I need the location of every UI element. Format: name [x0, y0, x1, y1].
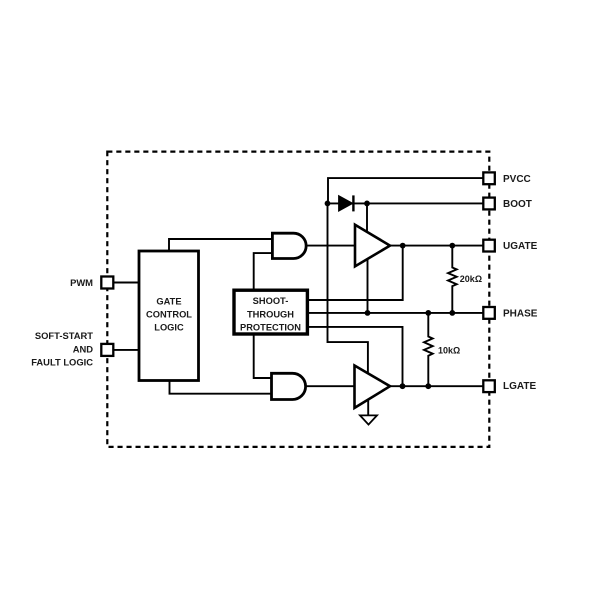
svg-text:FAULT LOGIC: FAULT LOGIC — [31, 356, 93, 367]
svg-text:SOFT-START: SOFT-START — [35, 330, 93, 341]
svg-text:10kΩ: 10kΩ — [438, 346, 460, 356]
svg-text:CONTROL: CONTROL — [146, 310, 192, 320]
svg-text:LOGIC: LOGIC — [154, 322, 184, 332]
svg-text:SHOOT-: SHOOT- — [253, 296, 289, 306]
svg-text:AND: AND — [73, 343, 94, 354]
svg-text:THROUGH: THROUGH — [247, 310, 294, 320]
svg-text:PVCC: PVCC — [503, 174, 531, 185]
svg-text:PWM: PWM — [70, 277, 93, 288]
svg-text:LGATE: LGATE — [503, 381, 536, 392]
svg-text:UGATE: UGATE — [503, 241, 538, 252]
svg-text:GATE: GATE — [156, 297, 181, 307]
svg-text:20kΩ: 20kΩ — [460, 274, 482, 284]
svg-text:PROTECTION: PROTECTION — [240, 322, 301, 332]
svg-text:BOOT: BOOT — [503, 199, 532, 210]
svg-text:PHASE: PHASE — [503, 308, 538, 319]
